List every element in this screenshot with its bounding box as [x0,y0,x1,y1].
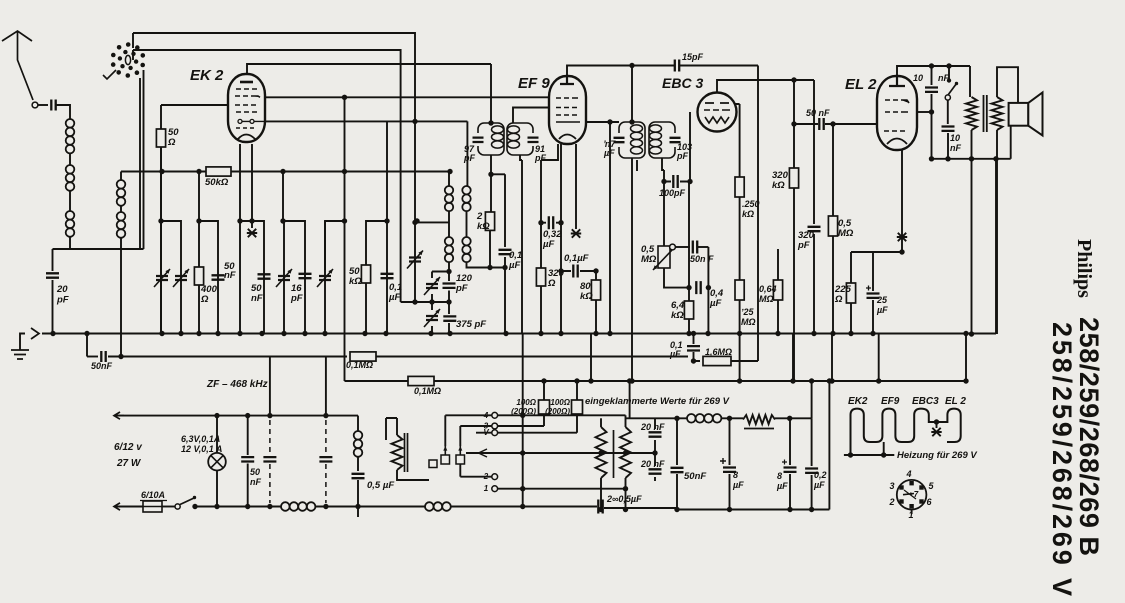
capacitor 50nF coupling [819,118,823,130]
tube socket bottom view [897,480,927,510]
svg-text:EBC 3: EBC 3 [662,75,703,91]
wire filter line seg3 [775,417,812,419]
wire v218 [217,270,219,334]
svg-text:MΩ: MΩ [759,294,774,304]
wire IF2 sec bottom drop [662,158,664,182]
wire 25uF drop [872,252,874,291]
svg-text:pF: pF [676,151,688,161]
resistor 0.25 M [735,280,744,300]
coil antenna coil L1 lower [66,211,75,237]
wire 80k drop [595,271,597,334]
wire battery rail bottom seg1 [114,506,143,508]
wire band line 2 [133,50,401,302]
mask 97pF [476,133,480,146]
wire pot top [663,182,665,247]
label ZF hint [206,379,268,390]
wire 50 ohm drop [160,105,162,334]
svg-text:8: 8 [733,470,738,480]
capacitor 375pF [443,316,456,320]
svg-text:50: 50 [250,467,260,477]
svg-text:nF: nF [950,143,961,153]
capacitor 11.7nF [614,138,625,142]
junction heater dot b [881,452,886,457]
wire line B riser [86,334,88,357]
wire switch stem a [132,33,134,60]
ground symbol [11,350,29,359]
wire 20pF drop lower [52,280,54,334]
mask 103pF [673,133,677,147]
wire 8uF a col [729,418,731,509]
wire v793 lower [793,188,795,381]
winding divider resistor b [620,427,631,478]
capacitor 320 pF [808,227,821,231]
svg-text:Ω: Ω [167,137,176,148]
trimmer capacitor padder b [173,269,189,287]
capacitor 50nF slider [693,241,697,254]
wire v811 upper [811,381,813,418]
wire battery rail bottom seg3 [315,506,425,508]
svg-text:MΩ: MΩ [838,228,854,239]
wire EK2 left grid wire [161,104,228,106]
svg-text:nF: nF [250,477,261,487]
coil antenna coil L2 upper [117,180,126,206]
capacitor 50nF a [212,275,225,279]
wire switch drop b [143,70,145,249]
wire bus-to-C link x591 [590,334,592,382]
wire vib top stub [386,418,397,440]
wire L1 bottom to tie line [69,237,71,249]
svg-text:EK 2: EK 2 [190,67,224,84]
label 20nF a [640,422,665,432]
vibrator contact box b [456,455,465,464]
wire osc row 302 [401,301,449,303]
svg-text:kΩ: kΩ [671,310,684,321]
label 0.1uF c [669,340,683,359]
wire 50nF batt lower [247,464,249,507]
wire pot bottom [664,268,689,288]
resistor 250 kOhm [735,177,744,197]
wire v387 lower [386,221,388,334]
IF transformer 2 primary tank [619,122,645,158]
svg-text:pF: pF [797,240,810,251]
slider contact [479,449,488,457]
wire 8uF b col [789,418,791,509]
wire plug to coupling cap [38,104,48,106]
label 0.1M lineC [414,386,441,396]
wire battery rail bottom seg4 [451,506,597,508]
wire bottom line y158 [932,158,1011,160]
capacitor 25uF [867,294,880,298]
svg-text:µF: µF [669,349,681,359]
wire tV line [476,414,577,433]
resistor 225 ohm [846,283,855,303]
resistor 320 ohm [536,268,545,286]
svg-text:µF: µF [508,260,520,271]
capacitor 0.2uF [805,469,818,473]
wire div a top [600,418,602,427]
label 6/10A [141,490,165,500]
label 6/12V [114,442,143,453]
wire osc coil B link [466,211,468,237]
wire rail corner to choke [357,416,359,431]
svg-text:20 nF: 20 nF [640,422,665,432]
wire band line top [133,33,415,121]
wire AVC line y97 [264,96,551,98]
coil antenna coil L1 upper [66,119,75,153]
capacitor 20nF a [649,432,662,436]
junctions EBC area [538,77,835,290]
wire EF9 top cap [567,66,633,77]
wire heater bottom line [844,454,894,456]
svg-text:pF: pF [455,283,468,294]
coil hash choke vert [354,431,363,457]
label pin6 [926,497,932,507]
resistor 0.5 MOhm [828,216,837,236]
svg-text:MΩ: MΩ [741,317,756,327]
wire v199 [198,221,200,334]
label 16pF [290,283,303,304]
label 15pF [682,52,704,62]
wire shield dashed b [325,420,327,503]
label 50nF coupling [806,108,830,118]
wire tuning stem 344 [344,97,346,381]
IF1 primary coil loops [492,126,504,133]
label pin4 [905,469,911,479]
wire v541 drop [540,160,542,334]
wire 50nF batt riser [247,416,249,455]
wire tuning stem 240 EK2 pin [239,144,241,221]
winding output transformer secondary [992,97,1003,130]
label 100 ohm b [545,398,571,416]
junctions divider [598,507,628,512]
label 250k [742,199,760,219]
label 8uF b [776,471,788,491]
junctions grid line [159,169,452,174]
wire L2 bottom down to AVC return [120,238,122,356]
vibrator contact box c [429,460,437,468]
resistor 0.1M lineB [350,352,376,361]
wire 15pF line [632,65,758,67]
plus mark 8uF a [720,458,726,464]
wire 2k upper lead [490,174,492,212]
wire grid line y171 [121,172,449,187]
capacitor 10nF b [942,127,955,131]
svg-text:µF: µF [603,148,615,158]
wire 0.1uF osc column [504,174,506,333]
wire shield b riser [325,357,327,417]
tube EBC3 electrodes [704,103,730,123]
label terminal label 1 [484,484,489,493]
svg-text:258/259/268/269 V: 258/259/268/269 V [1047,322,1077,596]
wire IF1 primary riser [490,64,492,123]
svg-text:EL 2: EL 2 [945,396,966,407]
label 0.5uF [367,480,394,491]
svg-text:µF: µF [776,481,788,491]
wire bus-to-C link x793 [792,334,794,382]
wire 10nF a stem [931,66,933,85]
wire IF2 primary tail [631,158,633,381]
tube EK2 electrodes [235,82,264,139]
wire v284 lower [283,221,285,334]
divider core bar [613,430,615,478]
terminal terminal 2 [492,474,498,480]
wire bus-to-C link x966 [965,334,967,382]
wire shield a riser [269,357,271,417]
wire v833 low [832,236,834,334]
capacitor shield cap b [319,457,332,461]
wire osc coil A link [448,211,450,237]
wire hook 161-181 [161,221,181,270]
winding vibrator winding [392,435,403,470]
resistor 50k ohm b [361,265,370,283]
wire 0.1uF c low [694,352,701,361]
capacitor 0.1uF a [381,274,394,278]
label EK2 heater [848,396,868,407]
svg-text:EK2: EK2 [848,396,868,407]
wire OT prim bottom [971,130,973,334]
label 20pF [56,284,69,306]
wire 20pF drop upper [52,249,54,271]
output transformer core [984,95,987,132]
svg-text:kΩ: kΩ [742,209,754,219]
chassis mark EF9 chassis [571,229,581,237]
wire choke to cap [357,457,359,471]
label 50nF a [224,261,236,281]
wire osc coil tie [415,221,449,223]
terminal terminal V [492,430,498,436]
label Heizung [897,450,977,461]
svg-text:pF: pF [463,153,475,163]
label pin3 [889,481,894,491]
svg-text:Ω: Ω [547,278,556,289]
svg-text:Ω: Ω [834,294,843,305]
winding output transformer primary [966,97,977,130]
IF2 secondary coil loops [650,125,662,132]
svg-text:375 pF: 375 pF [456,319,486,330]
terminal terminal 3 [492,423,498,429]
capacitor antenna coupling [51,100,55,111]
resistor 100 ohm b [572,400,583,414]
wire line B seg1 [87,356,98,358]
label lamp rating [181,434,222,454]
wire 0.1uF b links [561,270,596,272]
svg-text:.250: .250 [742,199,760,209]
wire 0.5uF tail [357,480,359,517]
wire v708 drop [707,247,709,334]
capacitor 50nF filter [671,468,684,472]
svg-text:50kΩ: 50kΩ [205,177,229,188]
label 20nF b [640,459,665,469]
resistor 0.1M lineC [408,376,434,385]
wire switch lower [947,100,949,124]
terminal terminal 4 [492,412,498,418]
wire 50nF filt [676,418,678,509]
wire EL2 cathode [901,150,903,252]
label pin2 [888,497,894,507]
terminal power switch pivot [175,504,180,509]
wire 10nF a lower [931,94,933,159]
junctions line C [541,378,968,383]
label 50 Ohm [167,127,179,148]
svg-text:10: 10 [913,73,923,83]
label 320 Ohm [547,268,565,289]
tone switch arm [948,84,957,96]
svg-text:10: 10 [950,133,960,143]
wire filter line link [626,381,688,418]
svg-text:µF: µF [709,298,721,309]
svg-text:1,6MΩ: 1,6MΩ [705,347,732,357]
svg-text:kΩ: kΩ [580,291,593,302]
label 0.25M [741,307,756,327]
wire EL2 top line [897,66,970,76]
label 50kOhm [205,177,229,188]
svg-text:0,5 µF: 0,5 µF [367,480,394,491]
wire v264 lower [263,270,265,334]
label 8uF a [732,470,744,490]
capacitor 0.1uF osc [499,250,512,254]
capacitor 16pF [299,274,312,278]
capacitor 100pF [673,175,677,188]
svg-text:pF: pF [56,295,69,306]
resistor 50 ohm [156,129,165,147]
wire 10nF b lower [947,133,949,159]
mask 91pF [531,133,535,146]
capacitor 10nF a [925,88,938,92]
label terminal label 3 [484,422,489,431]
svg-text:258/259/268/269 B: 258/259/268/269 B [1074,317,1104,556]
wire osc coil B vertical [466,121,468,186]
capacitor 0.32uF [549,216,553,229]
svg-text:EF 9: EF 9 [518,75,550,92]
svg-text:7: 7 [914,490,919,499]
wire osc trim3 col [431,272,433,334]
label EK 2 [190,67,224,84]
wire IF2 prim bottom [636,160,638,171]
coil antenna coil L1 mid [66,165,75,191]
wire switch drop a [139,78,141,249]
svg-text:0,2: 0,2 [814,470,827,480]
svg-text:EL 2: EL 2 [845,76,877,93]
capacitor 97pF [473,138,484,142]
resistor 0.64 M [773,280,782,300]
junctions osc section [412,119,507,305]
junctions EL2 area [899,63,998,336]
wire EF9 star stub [575,144,577,229]
svg-text:(200Ω): (200Ω) [545,407,570,416]
dial lamp [208,453,226,471]
tube EL2 envelope [877,76,917,150]
terminal pot slider [670,244,676,250]
wire tuning stem 199 [198,172,200,222]
trimmer capacitor osc trimmer 3 [424,277,440,295]
wire tuning stem 387 [386,121,388,221]
svg-text:MΩ: MΩ [641,254,657,265]
capacitor 50nF batt [241,457,254,461]
wire EF9 anode [586,121,619,123]
wire 0.2uF col [811,418,813,509]
chassis mark EK2 cathode chassis [247,229,257,237]
wire line B seg3 [376,356,688,358]
label EF9 heater [881,396,900,407]
wire switch stub [948,66,950,81]
wire v814 low [813,234,815,334]
fuse underline [140,500,167,502]
wire hook 344-325 [325,221,345,270]
wire osc trimmer1 vertical [414,121,416,302]
svg-text:6/12 v: 6/12 v [114,442,143,453]
label 50nF b [251,283,263,304]
wire socket stem [911,510,913,515]
wire 25uF low [872,300,874,334]
label 0.2uF [813,470,827,490]
resistor filter resistor [743,415,775,424]
trimmer capacitor trim c [276,269,292,287]
junctions power rails [192,413,814,513]
label 91pF [534,144,546,163]
wire v366 lower [365,264,367,334]
svg-text:50 nF: 50 nF [806,108,830,118]
wire EBC3 anode riser [717,80,814,93]
wire 100a top [543,381,545,400]
wire 100pF links [664,181,690,183]
svg-text:100Ω: 100Ω [516,398,536,407]
wire v161 rest [160,147,162,334]
wire L1 link [69,153,71,165]
label EL 2 [845,76,877,93]
resistor 50k ohm grid [206,167,231,176]
wire v689 lower [688,182,690,335]
terminal antenna plug [32,102,38,108]
svg-text:µF: µF [388,292,400,303]
svg-text:100pF: 100pF [659,188,686,198]
tube EL2 electrodes [884,76,909,144]
wire EK2 pin2 [251,144,253,221]
IF1 secondary coil loops [508,126,520,133]
label 6.4k [671,300,685,321]
svg-text:nF: nF [251,293,263,304]
vibrator contact box a [441,455,450,464]
svg-text:ʼ25: ʼ25 [741,307,755,317]
wire bus-to-C link x878.7 [878,334,880,382]
speaker [1009,103,1029,126]
label 50nF batt [250,467,261,487]
svg-text:50nF: 50nF [684,471,706,482]
wire v522 long [522,334,524,507]
wire line B seg2 [108,356,347,358]
label 0.1uF osc [508,250,522,271]
battery rail arrow 2 [114,503,124,510]
wire EK2 cathode star stub [251,221,253,228]
wire v181 [180,270,182,334]
wire heater tap stub [936,422,938,428]
wire rail after cap [604,507,677,509]
coil osc coil A2 [445,237,453,262]
resistor 6.4 kOhm [684,301,693,319]
resistor 1.6 M [703,356,731,365]
label 320k [772,170,789,191]
junction heater tap [934,419,939,424]
svg-text:Heizung für 269 V: Heizung für 269 V [897,450,977,461]
label 50nF filter [684,471,706,482]
filter resistor underline [744,428,774,430]
wire 0.32 link [541,222,561,224]
label 80kOhm [580,281,593,302]
wire 225 low [850,303,852,334]
label 0.1uF a [388,282,402,303]
svg-text:EBC3: EBC3 [912,396,939,407]
power switch arm [180,498,194,505]
wire OT sec bottom [996,130,998,334]
